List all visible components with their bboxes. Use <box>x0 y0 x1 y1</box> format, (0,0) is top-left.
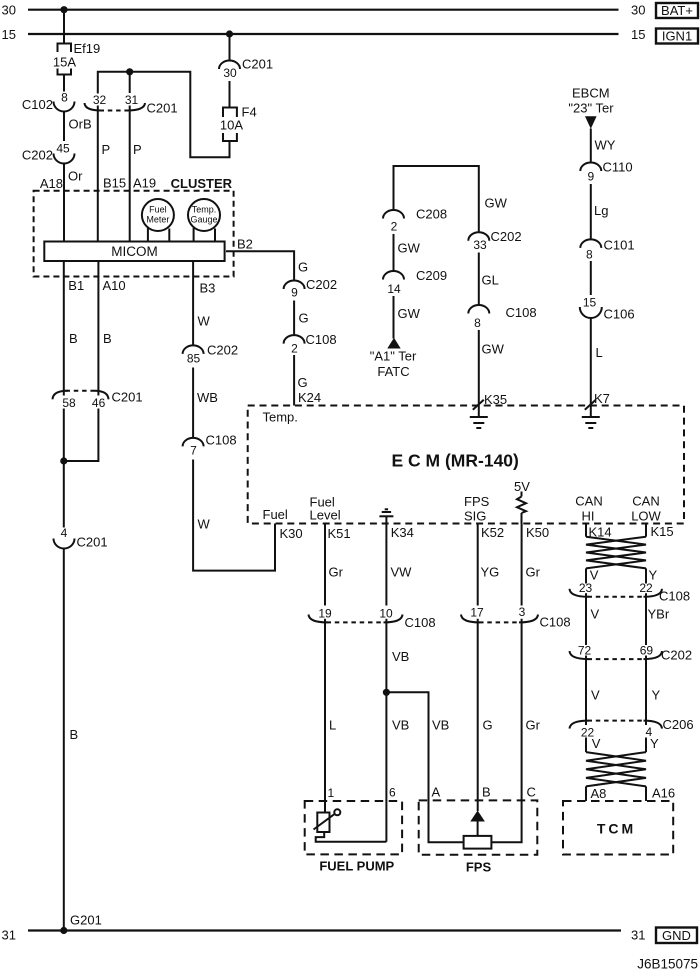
svg-text:VB: VB <box>392 649 409 664</box>
svg-text:G: G <box>298 260 308 275</box>
wire OrB <box>64 112 92 142</box>
svg-text:W: W <box>198 517 211 532</box>
svg-text:LOW: LOW <box>631 509 661 524</box>
svg-text:3: 3 <box>519 605 526 619</box>
svg-text:K30: K30 <box>280 526 303 541</box>
svg-text:MICOM: MICOM <box>111 244 158 259</box>
wire B to G201 <box>64 549 78 931</box>
label EBCM 23 Ter <box>568 86 614 116</box>
svg-text:Lg: Lg <box>594 203 608 218</box>
svg-text:14: 14 <box>387 282 401 296</box>
svg-text:1: 1 <box>328 786 335 800</box>
svg-text:8: 8 <box>474 316 481 330</box>
svg-text:7: 7 <box>190 444 197 458</box>
svg-text:F4: F4 <box>242 105 257 120</box>
wire G to ECM K24 <box>294 355 321 406</box>
fuel pump sender (rheostat with float) <box>314 809 387 842</box>
svg-text:C106: C106 <box>604 307 635 322</box>
gauge Fuel Meter <box>142 199 174 242</box>
svg-text:10: 10 <box>379 606 393 620</box>
cluster box CLUSTER <box>34 176 234 277</box>
svg-text:Or: Or <box>68 169 83 184</box>
svg-text:15: 15 <box>583 296 597 310</box>
svg-text:2: 2 <box>291 342 298 356</box>
connector C209 pin 14 <box>383 268 447 296</box>
wire Y stub to lower twist <box>646 736 659 752</box>
connector C201 pins 32/31 <box>85 93 178 116</box>
svg-text:30: 30 <box>631 3 645 18</box>
svg-text:HI: HI <box>582 509 595 524</box>
svg-text:C202: C202 <box>306 277 337 292</box>
svg-text:C: C <box>527 785 536 800</box>
wire K50 Gr <box>522 524 541 606</box>
wire V stub to lower twist <box>586 736 601 752</box>
terminal box GND <box>656 928 697 944</box>
label J6B15075 <box>637 957 698 971</box>
label 15 right <box>631 27 645 42</box>
svg-text:Gr: Gr <box>526 565 541 580</box>
node junction B1/A10 <box>60 457 67 464</box>
ground node G201 <box>60 913 102 935</box>
svg-text:31: 31 <box>631 927 645 942</box>
svg-text:9: 9 <box>291 286 298 300</box>
connector C202 pin 85 <box>183 343 238 366</box>
svg-text:P: P <box>102 142 111 157</box>
wire C201-30 to fuse F4 <box>229 81 231 107</box>
svg-text:G201: G201 <box>70 913 102 928</box>
connector C201 pin 30 <box>219 57 273 80</box>
svg-text:K34: K34 <box>391 525 414 540</box>
svg-text:"23" Ter: "23" Ter <box>568 100 614 115</box>
connector C202 pin 9 <box>284 277 337 300</box>
wire bus 30 <box>28 9 619 11</box>
svg-text:WB: WB <box>197 390 218 405</box>
svg-text:TCM: TCM <box>597 821 636 837</box>
wire bus30 to fuse Ef19 <box>63 10 65 43</box>
twisted pair CAN upper <box>586 537 646 569</box>
connector C201 pin 4 <box>54 526 108 550</box>
svg-text:GW: GW <box>482 342 505 357</box>
svg-text:Gr: Gr <box>526 718 541 733</box>
svg-text:Gauge: Gauge <box>190 215 217 225</box>
svg-text:WY: WY <box>595 138 616 153</box>
svg-text:Fuel: Fuel <box>149 205 167 215</box>
connector C101 pin 8 <box>580 238 634 262</box>
svg-text:19: 19 <box>318 607 332 621</box>
wire A10 (B) from MICOM <box>98 261 125 391</box>
svg-text:FPS: FPS <box>466 860 492 875</box>
pin label Fuel K30 <box>263 507 303 541</box>
svg-text:C108: C108 <box>405 615 436 630</box>
wire B3 (W) from MICOM <box>193 261 215 345</box>
svg-text:Y: Y <box>652 688 661 703</box>
svg-text:Temp.: Temp. <box>192 205 217 215</box>
block FUEL PUMP <box>305 801 402 873</box>
svg-text:G: G <box>299 311 309 326</box>
svg-text:K15: K15 <box>651 524 674 539</box>
wire GL <box>479 253 499 306</box>
wire B1 (B) from MICOM <box>64 261 84 391</box>
svg-text:C202: C202 <box>207 343 238 358</box>
svg-text:17: 17 <box>470 606 484 620</box>
svg-text:C202: C202 <box>491 229 522 244</box>
svg-text:C108: C108 <box>540 615 571 630</box>
svg-text:C102: C102 <box>22 97 53 112</box>
wire V between C202 and C206 <box>586 659 600 721</box>
terminal box BAT+ <box>656 3 698 18</box>
svg-text:4: 4 <box>61 526 68 540</box>
connector C108 pins 23/22 <box>570 581 691 604</box>
svg-text:85: 85 <box>187 352 201 366</box>
svg-text:C206: C206 <box>663 717 694 732</box>
wire from bus15 to C201 pin30 <box>229 34 231 61</box>
connector C108 pin 7 <box>183 433 237 458</box>
wire L to ECM K7 <box>591 318 610 406</box>
connector C201 pins 58/46 <box>53 390 143 410</box>
svg-text:30: 30 <box>223 66 237 80</box>
svg-text:FUEL PUMP: FUEL PUMP <box>319 858 394 873</box>
FPS sensor (triangle and body) <box>464 811 492 849</box>
svg-text:8: 8 <box>61 90 68 104</box>
svg-text:A: A <box>432 785 441 800</box>
svg-text:22: 22 <box>639 581 653 595</box>
svg-text:30: 30 <box>2 3 16 18</box>
svg-text:C108: C108 <box>306 332 337 347</box>
wire G to FPS pin B <box>478 622 493 811</box>
svg-text:C108: C108 <box>659 589 690 604</box>
svg-text:P: P <box>133 142 142 157</box>
ground inside ECM at K35 <box>470 400 488 428</box>
svg-text:K50: K50 <box>526 525 549 540</box>
terminal triangle EBCM <box>585 116 597 129</box>
svg-text:B2: B2 <box>237 237 253 252</box>
svg-text:C110: C110 <box>603 160 633 175</box>
wire P to B15 <box>98 111 126 242</box>
svg-text:A8: A8 <box>591 786 607 801</box>
wire A16 stub into TCM <box>646 786 675 802</box>
svg-text:CAN: CAN <box>632 494 659 509</box>
svg-text:A10: A10 <box>103 278 126 293</box>
svg-text:58: 58 <box>62 396 76 410</box>
terminal triangle A1 FATC <box>370 338 417 379</box>
svg-text:GND: GND <box>662 928 691 943</box>
wire fuse to C102 <box>63 75 65 92</box>
connector C102 pin 8 <box>22 90 75 112</box>
svg-text:C201: C201 <box>242 57 273 72</box>
node junction on bus 30 <box>60 6 67 13</box>
connector C108 pins 19/10 <box>309 606 436 630</box>
label 15 left <box>2 27 16 42</box>
pin label Fuel Level K51 <box>310 495 351 541</box>
connector C108 pin 8 <box>468 305 536 330</box>
svg-text:C202: C202 <box>22 148 53 163</box>
block ECM (MR-140) <box>248 406 684 524</box>
svg-text:V: V <box>592 736 601 751</box>
svg-text:B3: B3 <box>200 281 216 296</box>
svg-text:Level: Level <box>310 508 341 523</box>
label 30 left <box>2 3 16 18</box>
svg-text:B1: B1 <box>68 278 84 293</box>
svg-text:IGN1: IGN1 <box>662 29 692 44</box>
svg-text:BAT+: BAT+ <box>661 3 693 18</box>
svg-text:45: 45 <box>56 141 70 155</box>
svg-text:K24: K24 <box>298 390 321 405</box>
resistor 5V pull-up at K50 <box>514 479 549 540</box>
twisted pair CAN lower <box>586 752 646 786</box>
node junction VB branch <box>383 689 390 696</box>
node junction above pin 31 <box>126 68 133 93</box>
wire K52 YG <box>478 524 500 606</box>
wire C101 to C106 <box>590 261 592 295</box>
svg-text:31: 31 <box>125 93 139 107</box>
svg-text:VW: VW <box>391 565 413 580</box>
svg-text:Ef19: Ef19 <box>74 41 101 56</box>
wire 46 to junction <box>64 409 99 462</box>
label 31 left <box>2 928 16 943</box>
svg-text:6: 6 <box>389 786 396 800</box>
svg-text:B: B <box>69 331 78 346</box>
label 31 right <box>631 927 645 942</box>
wire W to ECM K30 <box>193 460 275 571</box>
wire P to A19 <box>130 111 156 242</box>
svg-text:33: 33 <box>473 238 487 252</box>
pin label FPS SIG K52 <box>464 494 504 540</box>
fuse F4 10A <box>220 105 257 142</box>
connector C202 pin 45 <box>22 141 75 163</box>
svg-text:EBCM: EBCM <box>572 86 610 101</box>
svg-text:C208: C208 <box>416 207 447 222</box>
svg-text:C201: C201 <box>112 390 143 405</box>
connector C208 pin 2 <box>383 207 447 234</box>
connector C108 pin 2 <box>284 332 337 356</box>
connector C106 pin 15 <box>580 296 635 322</box>
wire 58 down <box>63 409 65 528</box>
label 30 right <box>631 3 645 18</box>
wire K15 stub <box>645 524 647 537</box>
svg-text:"A1" Ter: "A1" Ter <box>370 349 417 364</box>
svg-text:Meter: Meter <box>146 215 169 225</box>
svg-text:FPS: FPS <box>464 494 490 509</box>
svg-text:V: V <box>591 688 600 703</box>
svg-text:GW: GW <box>398 306 421 321</box>
svg-text:GL: GL <box>482 273 499 288</box>
svg-text:K52: K52 <box>481 525 504 540</box>
wire Y between C202 and C206 <box>646 659 661 721</box>
wire Or to cluster A18 <box>40 164 83 242</box>
svg-text:W: W <box>198 314 211 329</box>
svg-text:2: 2 <box>391 220 398 234</box>
svg-text:8: 8 <box>586 248 593 262</box>
ground inside ECM at K7 <box>582 400 600 428</box>
svg-text:CLUSTER: CLUSTER <box>171 176 233 191</box>
wire VB to fuel pump pin 6 <box>386 622 409 841</box>
svg-text:V: V <box>591 607 600 622</box>
svg-text:B15: B15 <box>103 176 126 191</box>
svg-text:69: 69 <box>640 643 654 657</box>
svg-text:B: B <box>70 727 79 742</box>
svg-text:G: G <box>298 375 308 390</box>
svg-text:23: 23 <box>579 581 593 595</box>
pin label CAN LOW K15 <box>631 494 673 539</box>
svg-text:10A: 10A <box>220 117 243 132</box>
wire WY <box>591 129 616 163</box>
svg-text:C209: C209 <box>416 268 447 283</box>
svg-text:GW: GW <box>485 196 508 211</box>
fuse Ef19 15A <box>53 41 100 75</box>
wire K51 Gr <box>325 524 344 606</box>
connector C202 pins 72/69 <box>570 643 693 662</box>
svg-text:A19: A19 <box>133 176 156 191</box>
svg-text:Fuel: Fuel <box>263 507 288 522</box>
svg-text:A16: A16 <box>652 786 675 801</box>
wire L to fuel pump pin 1 <box>325 622 336 813</box>
svg-text:K51: K51 <box>328 526 351 541</box>
wire V stub above C108-23 <box>586 568 599 584</box>
block FPS <box>419 800 538 874</box>
svg-text:15A: 15A <box>53 55 76 70</box>
wire bus 15 <box>28 33 619 35</box>
svg-text:C108: C108 <box>206 433 237 448</box>
svg-text:C101: C101 <box>604 238 635 253</box>
pin label CAN HI K14 <box>575 494 611 540</box>
svg-text:K7: K7 <box>594 391 610 406</box>
svg-text:Temp.: Temp. <box>263 410 298 425</box>
node junction on bus 15 <box>226 30 233 37</box>
wire Y stub above C108-22 <box>646 568 658 584</box>
svg-text:CAN: CAN <box>575 494 602 509</box>
svg-text:YBr: YBr <box>648 607 670 622</box>
wire Lg <box>591 184 609 239</box>
svg-text:G: G <box>483 718 493 733</box>
wire YBr between C108 and C202 <box>646 597 670 645</box>
svg-text:Y: Y <box>650 736 659 751</box>
svg-text:C108: C108 <box>506 305 537 320</box>
wire B2 from MICOM <box>226 237 308 281</box>
wire F4 to pins 32/31 (S-route) <box>98 72 230 158</box>
wire A8 stub into TCM <box>586 786 606 801</box>
block TCM <box>563 801 673 855</box>
svg-text:Gr: Gr <box>329 565 344 580</box>
svg-text:B: B <box>482 785 491 800</box>
wire VB branch to FPS pin A <box>386 692 463 842</box>
svg-text:C201: C201 <box>147 101 178 116</box>
svg-text:46: 46 <box>92 396 106 410</box>
label Temp. inside ECM <box>263 410 298 425</box>
wire GW to FATC <box>394 296 421 339</box>
svg-text:31: 31 <box>2 928 16 943</box>
wire FATC branch top <box>394 166 479 232</box>
svg-text:FATC: FATC <box>377 364 409 379</box>
svg-text:32: 32 <box>93 93 107 107</box>
gauge Temp Gauge <box>188 199 220 242</box>
wire Gr to FPS pin C <box>491 622 540 842</box>
svg-text:GW: GW <box>398 241 421 256</box>
svg-text:VB: VB <box>392 718 409 733</box>
svg-text:C201: C201 <box>77 535 108 550</box>
connector C108 pins 17/3 <box>461 605 571 630</box>
wire bus 31 <box>28 929 621 931</box>
wire K34 VW <box>386 524 412 606</box>
svg-text:L: L <box>329 718 336 733</box>
svg-text:VB: VB <box>432 718 449 733</box>
wire G <box>294 301 309 336</box>
connector C206 pins 22/4 <box>570 717 694 739</box>
svg-text:SIG: SIG <box>464 509 486 524</box>
svg-text:15: 15 <box>2 27 16 42</box>
wire GW to ECM K35 <box>479 330 507 407</box>
svg-text:9: 9 <box>587 170 594 184</box>
ground inside ECM at K34 <box>379 509 413 540</box>
svg-text:72: 72 <box>578 643 592 657</box>
block MICOM <box>44 242 224 262</box>
terminal box IGN1 <box>656 29 698 44</box>
svg-text:C202: C202 <box>661 648 692 663</box>
svg-text:15: 15 <box>631 27 645 42</box>
svg-text:B: B <box>103 331 112 346</box>
connector C110 pin 9 <box>580 160 632 184</box>
wire GW <box>394 234 421 271</box>
svg-text:E C M (MR-140): E C M (MR-140) <box>392 451 519 471</box>
svg-text:L: L <box>596 345 603 360</box>
svg-text:J6B15075: J6B15075 <box>637 957 698 971</box>
wire V between C108 and C202 <box>586 597 600 645</box>
svg-text:OrB: OrB <box>69 117 92 132</box>
svg-text:A18: A18 <box>40 176 63 191</box>
wire WB <box>193 368 218 438</box>
wire K14 stub <box>585 524 587 537</box>
svg-text:YG: YG <box>481 565 500 580</box>
connector C202 pin 33 <box>468 196 521 252</box>
